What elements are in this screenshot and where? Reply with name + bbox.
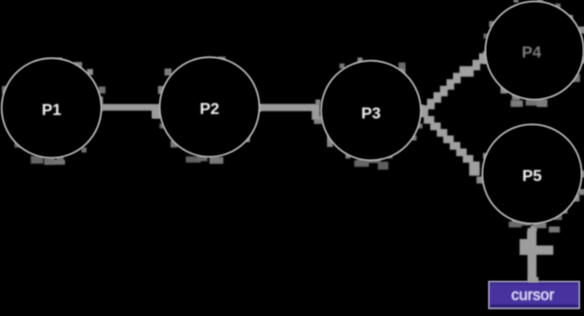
wire edge P1-P2 [101, 104, 153, 111]
wire edge P3-P4 (blocky diagonal) and wire edge P3-P5 [417, 47, 493, 176]
svg-text:P1: P1 [42, 102, 62, 119]
node P4 circle [485, 1, 584, 100]
node P3 circle [321, 61, 421, 161]
arrow edge cursor-P5: shaft [528, 228, 537, 282]
svg-text:cursor: cursor [511, 287, 554, 304]
node P5 circle [482, 124, 582, 224]
node P1 circle [2, 58, 102, 158]
wire edge P2-P3 [258, 104, 313, 111]
svg-text:P4: P4 [522, 45, 542, 62]
svg-text:P5: P5 [522, 168, 542, 185]
svg-text:P3: P3 [361, 106, 381, 123]
svg-text:P2: P2 [200, 101, 220, 118]
node P2 circle [160, 57, 260, 157]
arrow edge cursor-P5: head [520, 239, 529, 255]
compression artifact chunks around node borders [2, 0, 584, 231]
arrow shaft overlapping box top border [529, 277, 539, 283]
cursor node box [489, 282, 580, 309]
